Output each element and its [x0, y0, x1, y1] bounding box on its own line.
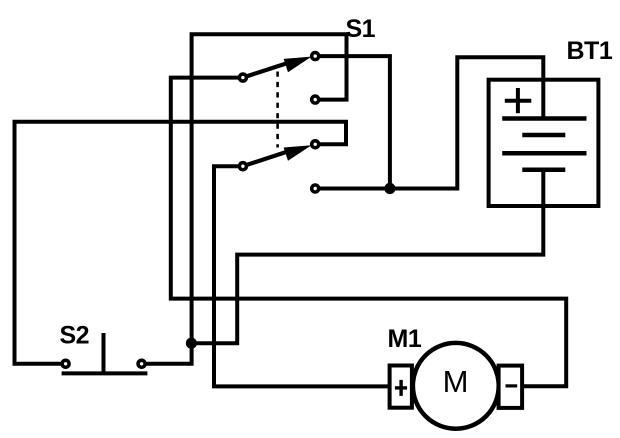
pushbutton S2 actuator bar [62, 371, 148, 375]
switch S1 gang link (dashed) [276, 72, 279, 148]
switch S1 contact 1-down terminal [312, 96, 319, 103]
wire net: S2 left terminal up left side to S1 contact 2-up [15, 122, 347, 364]
wire net: S1 contact 1-up to junction A [320, 56, 390, 188]
switch S1 pole 1 arrow (blade) [247, 57, 312, 77]
switch S1 contact 2-up terminal [312, 141, 319, 148]
battery BT1 enclosure box [489, 80, 599, 206]
battery BT1 cell plate long 2 [502, 151, 586, 156]
wire net: S1 pole 1 common down to motor M1 minus terminal [171, 78, 566, 387]
motor M1 minus mark [506, 384, 518, 387]
svg-text:S2: S2 [60, 322, 90, 350]
motor M1 plus terminal box [390, 366, 412, 408]
motor M1 minus terminal box [499, 366, 522, 408]
pushbutton S2 right terminal [138, 360, 145, 367]
switch S1 pole 2 common terminal [239, 163, 246, 170]
junction A (node at battery positive net) [384, 183, 395, 194]
svg-text:M1: M1 [388, 325, 422, 353]
pushbutton S2 actuator stem [102, 333, 106, 373]
battery BT1 cell plate short 2 [522, 167, 565, 172]
battery BT1 plus polarity mark [505, 88, 532, 113]
svg-text:BT1: BT1 [567, 37, 613, 65]
pushbutton S2 left terminal [62, 360, 69, 367]
switch S1 contact 1-up terminal [312, 53, 319, 60]
wire net: S1 pole 2 common down to motor M1 plus terminal [214, 166, 390, 386]
svg-text:S1: S1 [346, 15, 376, 43]
motor M1 plus mark [395, 380, 407, 396]
battery BT1 cell plate long 1 [502, 116, 586, 121]
svg-text:M: M [443, 364, 469, 399]
wire net: S1 contact 1-down to top run, down left side to junction B and S2 right terminal [147, 34, 347, 364]
motor M1 body circle [413, 343, 499, 429]
switch S1 contact 2-down terminal [312, 185, 319, 192]
switch S1 pole 2 arrow (blade) [247, 145, 312, 165]
wire net: S1 contact 2-down through junction A to battery BT1 positive [320, 57, 544, 188]
switch S1 pole 1 common terminal [239, 74, 246, 81]
battery BT1 cell plate short 1 [522, 133, 565, 138]
junction B (node at battery negative net) [186, 338, 197, 349]
wire net: battery BT1 negative stem down and left to junction B [191, 170, 543, 344]
